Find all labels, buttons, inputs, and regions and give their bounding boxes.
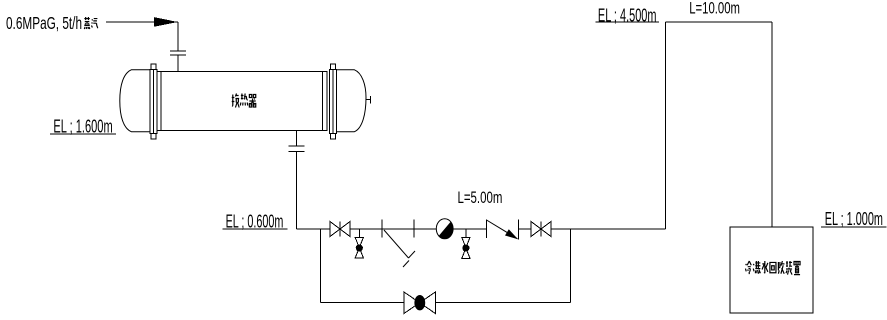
main condensate pipe segment 2 (519, 228, 666, 230)
flow element (half-shaded circle) (436, 219, 453, 239)
heat exchanger right head (337, 70, 367, 132)
flange pair (condensate outlet) (288, 145, 304, 147)
bypass pipe bottom run (321, 302, 571, 304)
heat exchanger left tubesheet line (160, 72, 162, 131)
HX bottom nozzle pipe (296, 131, 298, 147)
steam inlet pipe (vertical drop) (177, 22, 179, 51)
svg-text:L=5.00m: L=5.00m (458, 188, 503, 207)
underline EL 4.500m (596, 21, 659, 23)
heat exchanger shell (157, 72, 327, 131)
check valve flap (487, 220, 518, 239)
pipe tick (union) left of strainer (381, 220, 383, 238)
riser pipe up (665, 22, 667, 229)
heat exchanger left head (120, 70, 150, 132)
bypass pipe up-right (570, 229, 572, 303)
main condensate pipe segment 1 (297, 228, 487, 230)
bypass globe valve V5 (404, 292, 420, 314)
svg-text:0.6MPaG, 5t/h: 0.6MPaG, 5t/h (6, 13, 82, 33)
drain valve V2 stem (358, 229, 360, 238)
steam inlet arrow line (106, 21, 178, 23)
underline EL 0.600m (223, 228, 288, 230)
check valve left tick (486, 219, 488, 238)
drain valve V3 stem (465, 229, 467, 237)
HX right stub nozzle (365, 99, 370, 101)
condensate recovery unit box (730, 227, 813, 313)
gate valve V1 (330, 222, 340, 237)
heat exchanger right flange (331, 64, 336, 139)
drain valve V2 (355, 238, 363, 248)
label glyph: 汽 (steam) (91, 19, 97, 29)
label glyph: 蒸 (steam) (84, 17, 89, 29)
underline EL 1.600m (50, 133, 116, 135)
pipe tick (union) right of strainer (413, 220, 415, 238)
label: 换热器 (heat exchanger) (232, 94, 239, 108)
svg-text:L=10.00m: L=10.00m (689, 0, 740, 18)
downcomer pipe to recovery unit (771, 22, 773, 227)
Y-strainer leg (384, 230, 415, 267)
pipe: down to condensate main line (296, 152, 298, 230)
check valve arrowhead (505, 229, 518, 239)
bypass pipe down-left (320, 229, 322, 303)
heat exchanger left flange (151, 64, 156, 139)
heat exchanger right tubesheet line (322, 72, 324, 131)
gate valve V4 (531, 222, 541, 237)
svg-text:EL ; 0.600m: EL ; 0.600m (226, 210, 284, 231)
flange pair (steam inlet) (170, 50, 186, 52)
svg-text:EL ; 1.600m: EL ; 1.600m (53, 116, 112, 137)
overhead pipe run (666, 21, 773, 23)
underline EL 1.000m (821, 226, 886, 228)
check valve right tick (518, 219, 520, 239)
steam arrowhead (154, 17, 178, 27)
pipe: flange to HX top nozzle (177, 55, 179, 72)
drain valve V3 (462, 237, 470, 248)
label: 冷凝水回收装置 (condensate recovery unit) (745, 261, 751, 274)
svg-text:EL ; 1.000m: EL ; 1.000m (825, 208, 883, 229)
